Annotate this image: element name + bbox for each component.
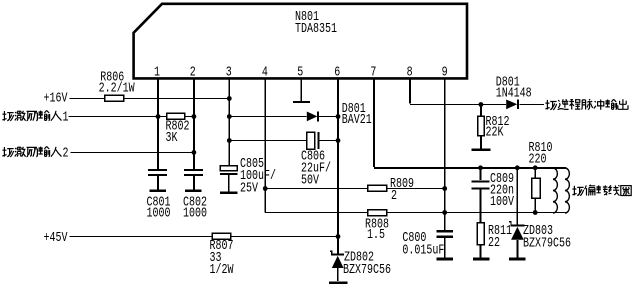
D801 1N4148 label [496, 75, 532, 102]
R811 label [488, 223, 512, 251]
wire R808 bottom rail pin4-coil [265, 212, 566, 214]
C806 label [301, 149, 331, 189]
node +45V label [44, 230, 68, 246]
R808 label [365, 216, 389, 243]
pin 2 number [190, 64, 196, 80]
ground ZD803 [509, 258, 525, 261]
svg-text:BAV21: BAV21 [342, 112, 372, 128]
svg-text:BZX79C56: BZX79C56 [343, 262, 391, 278]
capacitor C809 [472, 182, 490, 223]
wire pin6 vertical [337, 79, 339, 254]
svg-text:25V: 25V [240, 180, 258, 196]
node input1 label 场激励输入1 [2, 109, 68, 125]
IC label TDA8351 [295, 21, 337, 37]
svg-text:+45V: +45V [44, 230, 68, 246]
capacitor C801 [148, 170, 167, 191]
wire pin9 vertical [444, 79, 446, 230]
ground pin5 [293, 101, 310, 103]
diode D801 1N4148 [506, 100, 518, 110]
resistor R806 [105, 95, 124, 101]
R807 label [210, 238, 234, 278]
pin 5 number [297, 64, 303, 80]
op-amp U1: IC N801 TDA8351 outline [134, 4, 467, 79]
svg-text:220: 220 [529, 151, 547, 167]
svg-text:2: 2 [391, 188, 397, 204]
node junction pin9/R809 [442, 186, 447, 191]
node input2 label 场激励输入2 [2, 145, 68, 161]
svg-text:2.2/1W: 2.2/1W [99, 80, 135, 96]
inductor field deflection coil [553, 168, 569, 213]
node junction pin3/+16V [227, 96, 232, 101]
node junction R812/output line [479, 102, 484, 107]
ZD803 label [523, 223, 571, 251]
svg-text:2: 2 [63, 145, 69, 161]
C801 label [147, 194, 171, 221]
node junction pin6/+45V [336, 234, 341, 239]
zener ZD802 [330, 251, 344, 281]
C800 label [402, 230, 444, 259]
svg-text:7: 7 [370, 64, 376, 80]
C805 label [240, 156, 276, 196]
node junction R810/top rail [533, 165, 538, 170]
svg-text:1N4148: 1N4148 [496, 86, 532, 102]
node junction pin2/input2 [192, 150, 197, 155]
R812 label [486, 114, 510, 141]
node junction pin3/C806 [227, 138, 232, 143]
node junction pin6/C806 [336, 138, 341, 143]
pin 8 number [407, 64, 413, 80]
svg-text:3K: 3K [166, 130, 178, 146]
C802 label [183, 194, 207, 221]
wire C806 line pin3-pin6 [229, 140, 338, 142]
R806 label [99, 70, 135, 97]
R802 label [166, 119, 190, 146]
wire D801 BAV21 line pin3-pin6 [229, 116, 338, 118]
svg-text:100V: 100V [490, 194, 514, 210]
svg-text:1/2W: 1/2W [210, 262, 234, 278]
wire R809 line pin4-pin9 [265, 188, 445, 190]
resistor R808 [368, 210, 387, 216]
resistor R809 [368, 185, 387, 191]
pin 3 number [226, 64, 232, 80]
svg-text:1000: 1000 [147, 206, 171, 222]
diode D801 BAV21 [307, 112, 318, 122]
pin 4 number [262, 64, 268, 80]
wire pin2 vertical [193, 79, 195, 169]
svg-text:8: 8 [407, 64, 413, 80]
svg-text:0.015uF: 0.015uF [402, 243, 444, 259]
svg-text:22K: 22K [486, 125, 504, 141]
pin 1 number [154, 64, 160, 80]
IC label N801 [295, 9, 319, 25]
svg-text:TDA8351: TDA8351 [295, 21, 337, 37]
C809 label [490, 171, 514, 210]
capacitor C802 [184, 170, 203, 191]
svg-text:9: 9 [442, 64, 448, 80]
wire ZD803 branch [516, 168, 518, 224]
svg-text:1: 1 [63, 109, 69, 125]
node output label 场逆程脉冲输出 [545, 99, 628, 110]
resistor R810 [532, 168, 541, 213]
wire pin8 to output [410, 79, 544, 105]
wire pin1 vertical [157, 79, 159, 169]
resistor R811 [473, 223, 490, 259]
svg-text:BZX79C56: BZX79C56 [523, 235, 571, 251]
svg-text:4: 4 [262, 64, 268, 80]
node junction pin4/R809 [263, 186, 268, 191]
wire pin4 vertical [264, 79, 266, 213]
wire pin3 vertical [228, 79, 230, 166]
svg-text:1.5: 1.5 [367, 227, 385, 243]
wire input2 to pin2 [71, 151, 194, 153]
node +16V label [44, 91, 68, 107]
capacitor C800 [436, 231, 453, 259]
resistor R802 [167, 113, 185, 119]
R809 label [390, 176, 414, 204]
node junction C809/top rail [478, 165, 483, 170]
node junction pin2/input1 [192, 114, 197, 119]
node junction pin9/R808 [442, 210, 447, 215]
svg-text:1000: 1000 [183, 206, 207, 222]
node junction R810 bottom/rail [533, 210, 538, 215]
svg-text:5: 5 [297, 64, 303, 80]
zener ZD803 [509, 222, 524, 258]
wire C809 branch [480, 168, 482, 180]
ZD802 label [343, 250, 391, 278]
svg-text:50V: 50V [301, 173, 319, 189]
node junction pin1/input1 [156, 114, 161, 119]
svg-text:22: 22 [488, 235, 500, 251]
node junction pin6/diode [336, 114, 341, 119]
capacitor C806 [307, 132, 319, 149]
R810 label [529, 140, 553, 167]
svg-text:6: 6 [334, 64, 340, 80]
D801 BAV21 label [342, 101, 372, 128]
svg-text:2: 2 [190, 64, 196, 80]
wire pin7 to coil top rail [374, 79, 566, 168]
wire +45V line [70, 236, 338, 238]
resistor R812 [472, 105, 491, 150]
ground ZD802 [329, 281, 348, 284]
capacitor C805 [220, 166, 237, 193]
svg-text:3: 3 [226, 64, 232, 80]
wire +16V rail to pin3 [70, 98, 230, 100]
svg-text:1: 1 [154, 64, 160, 80]
wire input1 to R802/pins [69, 116, 194, 118]
resistor R807 [212, 233, 231, 239]
node junction ZD803/top rail [515, 165, 520, 170]
pin 9 number [442, 64, 448, 80]
node coil label 场偏转线圈 [572, 185, 631, 196]
pin 7 number [370, 64, 376, 80]
node junction pin3/diode [227, 114, 232, 119]
wire pin5 stub [300, 79, 302, 101]
svg-text:+16V: +16V [44, 91, 68, 107]
pin 6 number [334, 64, 340, 80]
